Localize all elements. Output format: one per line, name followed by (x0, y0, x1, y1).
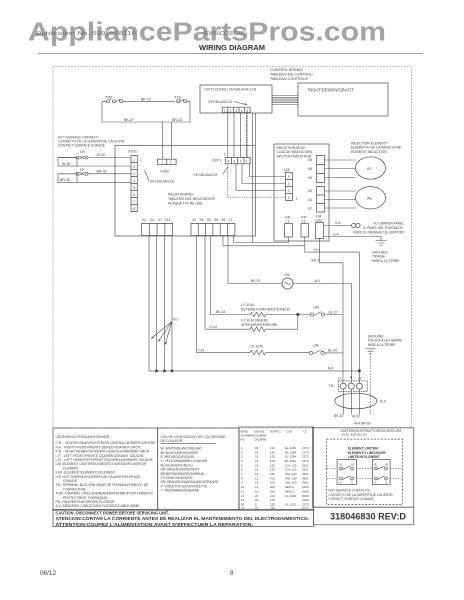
svg-text:MISE A LA TERRE: MISE A LA TERRE (368, 343, 396, 347)
svg-text:X4: X4 (308, 198, 312, 202)
ground note (carrier) (372, 250, 400, 262)
svg-text:4: 4 (288, 175, 290, 179)
svg-text:X6: X6 (221, 218, 225, 222)
thermal limiter box (THM T40/T19) (102, 101, 190, 122)
svg-text:A.V.-ARMORED CABLE/TUBO FLEXIB: A.V.-ARMORED CABLE/TUBO FLEXIBLE/CABLE A… (56, 504, 141, 508)
svg-text:BK-27: BK-27 (124, 118, 134, 122)
svg-text:LIMITEUR ELEMENT: LIMITEUR ELEMENT (348, 455, 380, 459)
svg-text:8: 8 (133, 207, 135, 211)
svg-text:4: 4 (227, 160, 229, 164)
carrier panel connector pair (352, 223, 361, 227)
svg-text:R.F,L.F,(R.R,L.R): R.F,L.F,(R.R,L.R) (342, 433, 366, 437)
svg-text:TO CARRIER PANEL: TO CARRIER PANEL (373, 221, 404, 225)
wire BL-34 LIM2 to bus (324, 349, 343, 353)
relay board connector X3 X8 X5 X9 X6 X7 (191, 218, 235, 236)
svg-text:5: 5 (246, 109, 248, 113)
wire BK-32 relay to fan (228, 236, 282, 284)
svg-text:KEY/BUJIA/CLE: KEY/BUJIA/CLE (194, 173, 219, 177)
svg-text:LF: LF (80, 168, 85, 172)
svg-text:X7: X7 (229, 218, 233, 222)
control board label (270, 68, 314, 81)
induction element note (351, 141, 401, 153)
svg-text:CALIBRE: CALIBRE (254, 438, 266, 442)
svg-text:G-4: G-4 (333, 232, 339, 236)
thermal switch T19 (174, 94, 187, 102)
svg-text:24: 24 (241, 506, 245, 510)
svg-text:ELEMENT INDUCTION: ELEMENT INDUCTION (351, 150, 387, 154)
svg-text:X7: X7 (158, 218, 162, 222)
svg-text:CONTACT SURFACE CHAUDE: CONTACT SURFACE CHAUDE (58, 144, 106, 148)
svg-text:1: 1 (288, 196, 290, 200)
wire G-4 to ground (324, 232, 382, 240)
svg-text:A1: A1 (340, 462, 344, 466)
svg-text:5: 5 (133, 186, 135, 190)
wires relay board to induction L1/L2 feed (223, 236, 305, 246)
svg-text:L.F. ELM: L.F. ELM (241, 303, 254, 307)
svg-text:O-34: O-34 (210, 325, 217, 329)
svg-text:Publication No. 5995508116: Publication No. 5995508116 (36, 31, 136, 37)
svg-text:1: 1 (224, 153, 226, 157)
wire Y-34 relay to LR element (197, 236, 251, 353)
svg-text:OUTER/EXTERIOR/EXTERIEUR: OUTER/EXTERIOR/EXTERIEUR (241, 307, 291, 311)
svg-text:X360: X360 (160, 169, 169, 173)
wire W-1 fan to TB N (293, 279, 351, 383)
wires stack2 to element A8 (325, 191, 357, 208)
svg-text:3: 3 (133, 172, 135, 176)
svg-text:BK-32: BK-32 (334, 414, 343, 418)
schematic frame (53, 67, 412, 429)
vertical bus wire to TB L2 (358, 252, 360, 383)
TB terminal L2 (356, 383, 362, 389)
junction box B.X. ellipse (335, 393, 387, 409)
vertical bus wire to TB L1 (342, 263, 344, 383)
ground symbol (carrier) (376, 241, 387, 246)
svg-text:18: 18 (255, 506, 259, 510)
svg-text:(EW30CC55GS5): (EW30CC55GS5) (203, 31, 247, 37)
svg-text:A5: A5 (308, 167, 312, 171)
color code box (158, 428, 239, 510)
wire inner element up to junction (266, 315, 298, 330)
wire BK-4 from X34 to L1 bus (312, 239, 344, 263)
svg-text:RELAY BOARD/: RELAY BOARD/ (168, 193, 194, 197)
svg-text:UL-1015: UL-1015 (285, 502, 296, 506)
hot surface switch LR (58, 150, 131, 159)
wire gauge table (239, 427, 314, 510)
control board box (display) (298, 83, 388, 116)
svg-text:N-2: N-2 (173, 317, 178, 321)
svg-text:LIM.: LIM. (313, 306, 319, 310)
svg-text:LEGEND/LEYENDA/LEGENDE: LEGEND/LEYENDA/LEGENDE (56, 435, 110, 439)
wire LR element to LIM2 (266, 352, 310, 354)
svg-text:TEMP.'C: TEMP.'C (270, 430, 281, 434)
svg-text:3: 3 (235, 109, 237, 113)
connector stack X8/A5/X6 (308, 156, 325, 183)
limit switch LIM1 (310, 306, 324, 317)
svg-text:T.B.: T.B. (329, 384, 335, 388)
junction dot R-4 bus / L2 (358, 369, 361, 372)
svg-text:BR-30: BR-30 (60, 178, 70, 182)
svg-text:O: O (385, 480, 387, 484)
svg-text:T40: T40 (105, 94, 113, 99)
wire BL-37 LIM1 to bus (325, 310, 344, 314)
svg-text:BK-4: BK-4 (312, 259, 319, 263)
svg-text:KEY/BUJIA/CLE: KEY/BUJIA/CLE (209, 100, 234, 104)
relay board connector X2 X4 X7 X13 (142, 218, 173, 236)
TB terminal L1 (340, 383, 346, 389)
L.F. inner element label (241, 318, 278, 326)
svg-text:T -TAN/HABANO/HAVANE: T -TAN/HABANO/HAVANE (161, 489, 200, 493)
svg-text:SECTION INDUCTION: SECTION INDUCTION (277, 154, 312, 158)
svg-text:L1: L1 (286, 220, 290, 224)
svg-text:X9: X9 (214, 218, 218, 222)
svg-text:6: 6 (133, 193, 135, 197)
resistor L.F. outer (250, 312, 266, 316)
svg-text:KEY/BUJIA/CLE: KEY/BUJIA/CLE (150, 179, 175, 183)
svg-text:WIRING DIAGRAM: WIRING DIAGRAM (199, 43, 265, 52)
svg-text:8: 8 (230, 570, 234, 577)
svg-text:X6: X6 (308, 176, 312, 180)
limiters box (312, 428, 413, 507)
svg-text:TABLEAU CONTROLE: TABLEAU CONTROLE (270, 77, 309, 81)
svg-text:LR: LR (80, 150, 85, 154)
svg-text:FM: FM (285, 273, 290, 277)
connector X34 GR2 (316, 215, 324, 239)
relay board outline (115, 145, 255, 236)
svg-text:3: 3 (233, 160, 235, 164)
svg-text:L.R. ELM: L.R. ELM (249, 345, 263, 349)
svg-text:2: 2 (230, 109, 232, 113)
svg-text:INTERIOR/INTERIEURE: INTERIOR/INTERIEURE (241, 323, 278, 327)
svg-text:X8: X8 (308, 158, 312, 162)
resistor L.R. (250, 350, 266, 354)
caution box (53, 509, 313, 528)
svg-text:ATENCION:CORTAR LA CORRIENTE A: ATENCION:CORTAR LA CORRIENTE ANTES DE RE… (56, 516, 310, 522)
limit switch LIM2 (309, 343, 324, 354)
svg-text:DE COULEUR: DE COULEUR (161, 439, 183, 443)
wire R-4 from X37 to L2 bus (305, 246, 360, 252)
svg-text:L2: L2 (302, 220, 306, 224)
L.F. outer element label (241, 303, 291, 311)
svg-text:X3: X3 (192, 218, 196, 222)
limiter leads dashed (327, 469, 403, 479)
hot surface contacts note (limiters) (328, 489, 393, 501)
svg-text:R-4: R-4 (315, 248, 320, 252)
svg-text:1: 1 (224, 109, 226, 113)
svg-text:T19: T19 (174, 94, 182, 99)
terminal block T.B. (329, 376, 368, 392)
svg-text:BR-30: BR-30 (97, 169, 107, 173)
svg-text:2: 2 (288, 189, 290, 193)
svg-text:CONTACT SURFACE CHAUDE: CONTACT SURFACE CHAUDE (328, 497, 373, 501)
legend box (53, 428, 158, 510)
svg-text:PLAQUETTE RELAIS: PLAQUETTE RELAIS (168, 202, 203, 206)
svg-text:W-32: W-32 (352, 414, 360, 418)
wires stack1 to element A7 (325, 160, 357, 178)
svg-text:2: 2 (170, 161, 172, 165)
svg-text:240: 240 (270, 506, 275, 510)
key note LCD (209, 100, 248, 105)
hot surface switch LF (58, 168, 131, 176)
svg-text:06/12: 06/12 (40, 570, 56, 577)
svg-text:4: 4 (133, 179, 135, 183)
svg-text:B.X.: B.X. (380, 399, 386, 403)
LCD module box U-LCD (200, 85, 272, 113)
svg-text:LIM.: LIM. (313, 343, 319, 347)
part number box (313, 507, 413, 525)
svg-text:UL: UL (304, 430, 308, 434)
svg-text:X5: X5 (207, 218, 211, 222)
svg-text:R-4: R-4 (328, 366, 333, 370)
svg-text:L1: L1 (338, 376, 342, 380)
key note for X360 (145, 170, 175, 183)
wire T19 box to X360 pin2 (171, 122, 173, 159)
wire T40 box to X360 pin1 (162, 122, 164, 159)
svg-text:CAUTION: DISCONNECT POWER BEFO: CAUTION: DISCONNECT POWER BEFORE SERVICI… (56, 510, 170, 516)
hot surface contact note (58, 136, 125, 148)
TB terminal N (348, 383, 354, 389)
svg-text:2: 2 (133, 165, 135, 169)
svg-text:BL-34: BL-34 (328, 349, 337, 353)
svg-text:Y-34: Y-34 (198, 348, 205, 352)
supply wires below TB (343, 389, 359, 415)
wires control board down to induction module X28 (228, 113, 286, 243)
svg-text:BL-37: BL-37 (329, 310, 338, 314)
key note for X3Y1 (194, 167, 229, 178)
svg-text:BR-22: BR-22 (172, 118, 182, 122)
ground symbol (supply) (366, 349, 376, 354)
svg-text:1: 1 (161, 161, 163, 165)
neutral bus R-4 (149, 366, 359, 371)
svg-text:A8: A8 (367, 197, 372, 201)
ground wire dashed through junction box (370, 354, 372, 415)
svg-text:N: N (375, 480, 377, 484)
svg-text:L.F. ELM (INNER)/: L.F. ELM (INNER)/ (241, 318, 268, 322)
svg-text:X8: X8 (199, 218, 203, 222)
carrier panel note (353, 221, 404, 234)
svg-text:ATTENTION:COUPEZ L'ALIMENTATIO: ATTENTION:COUPEZ L'ALIMENTATION AVANT D'… (56, 522, 254, 528)
svg-text:RIGHT:DEMON/GRAFIT: RIGHT:DEMON/GRAFIT (308, 88, 354, 93)
svg-text:LEFT:LCD/IZQ:LCD/GAUCHE:LCD: LEFT:LCD/IZQ:LCD/GAUCHE:LCD (205, 87, 257, 91)
fan motor FM (282, 273, 293, 289)
top rule (38, 53, 423, 55)
wire group note N-2 with arrows (151, 317, 178, 344)
LR return wire tag W-30 to X102 pin 2 (58, 158, 77, 167)
limiter switch box 1 (337, 460, 356, 485)
limiter switch box 2 (372, 460, 390, 485)
svg-text:1: 1 (296, 197, 298, 201)
svg-text:A9: A9 (308, 189, 312, 193)
svg-text:1: 1 (133, 158, 135, 162)
wire BK-34 relay to LF outer element (211, 236, 251, 315)
connector X102 (128, 149, 142, 211)
svg-text:TABLERO DEL RELEVADOR/: TABLERO DEL RELEVADOR/ (168, 197, 215, 201)
junction dot LF elements (296, 313, 299, 316)
junction dots neutral bus (155, 370, 158, 373)
svg-text:X3Y1: X3Y1 (212, 159, 221, 163)
svg-text:X7: X7 (308, 207, 312, 211)
resistor L.F. inner (250, 327, 266, 331)
svg-text:1: 1 (140, 158, 142, 162)
svg-text:W-30: W-30 (62, 162, 71, 166)
svg-text:X2: X2 (142, 218, 146, 222)
svg-text:B2: B2 (385, 462, 389, 466)
ground note (supply) (368, 334, 402, 346)
induction element A8 (356, 187, 386, 209)
svg-text:W-1: W-1 (315, 279, 321, 283)
svg-text:L2: L2 (358, 376, 362, 380)
svg-text:UL-1343: UL-1343 (285, 494, 296, 498)
svg-text:GR2: GR2 (316, 219, 323, 223)
connector X30 L1 (285, 215, 293, 237)
svg-text:CONTROL BOARD/: CONTROL BOARD/ (270, 68, 304, 72)
connector stack A9/X4/X7 (308, 187, 325, 213)
svg-text:BK-22: BK-22 (141, 98, 151, 102)
connector X37 L2 (301, 215, 309, 237)
svg-text:A. PANEL DEL PORTADOR: A. PANEL DEL PORTADOR (363, 226, 403, 230)
svg-text:BK-32: BK-32 (251, 279, 260, 283)
svg-text:4: 4 (241, 109, 243, 113)
svg-text:TABLERO DE CONTROL/: TABLERO DE CONTROL/ (270, 73, 314, 77)
connector X360 (158, 159, 177, 173)
wire G-8 to carrier panel connector (324, 221, 352, 225)
svg-text:2: 2 (240, 160, 242, 164)
svg-text:X102: X102 (128, 149, 137, 153)
wires LCD pins to X3Y1 (228, 113, 247, 158)
LCD pin strip (222, 107, 250, 113)
relay board label (168, 193, 215, 206)
svg-text:B1: B1 (375, 462, 379, 466)
svg-text:FIL: FIL (241, 438, 246, 442)
svg-text:BK-34: BK-34 (216, 310, 225, 314)
svg-text:X4: X4 (150, 218, 154, 222)
limiter dashed box (327, 439, 403, 504)
svg-text:G-8: G-8 (335, 221, 341, 225)
LF return wire tag BR-30 to X102 pin 4 (58, 174, 77, 183)
wire element to LIM1 with junction (266, 314, 311, 316)
wire O-34 relay to LF inner element (205, 236, 250, 330)
svg-text:VERS LE PANNEAU DE SUPPORT: VERS LE PANNEAU DE SUPPORT (353, 231, 404, 235)
svg-text:318046830 REV:D: 318046830 REV:D (330, 511, 406, 522)
induction module box (274, 144, 329, 241)
neutral wires relay board down to bus (149, 236, 172, 371)
svg-text:7: 7 (133, 200, 135, 204)
svg-text:A2: A2 (351, 462, 355, 466)
ribbon cable LCD to control board (272, 96, 298, 105)
svg-text:1: 1 (246, 160, 248, 164)
svg-text:A7: A7 (367, 167, 372, 171)
connector X28 (284, 168, 298, 201)
svg-text:N: N (340, 480, 342, 484)
svg-text:W-4 BR-50: W-4 BR-50 (354, 422, 370, 426)
svg-text:X13: X13 (165, 218, 171, 222)
svg-text:MISE A LA TERRE: MISE A LA TERRE (372, 259, 400, 263)
svg-text:3071: 3071 (302, 506, 309, 510)
svg-text:O: O (351, 480, 353, 484)
connector X3Y1 (212, 153, 250, 164)
thermal switch T40 (105, 94, 123, 102)
svg-text:W-30: W-30 (97, 153, 106, 157)
svg-text:3: 3 (288, 182, 290, 186)
induction element A7 (356, 157, 386, 179)
svg-text:X28: X28 (284, 168, 290, 172)
svg-text:CSA: CSA (286, 430, 292, 434)
